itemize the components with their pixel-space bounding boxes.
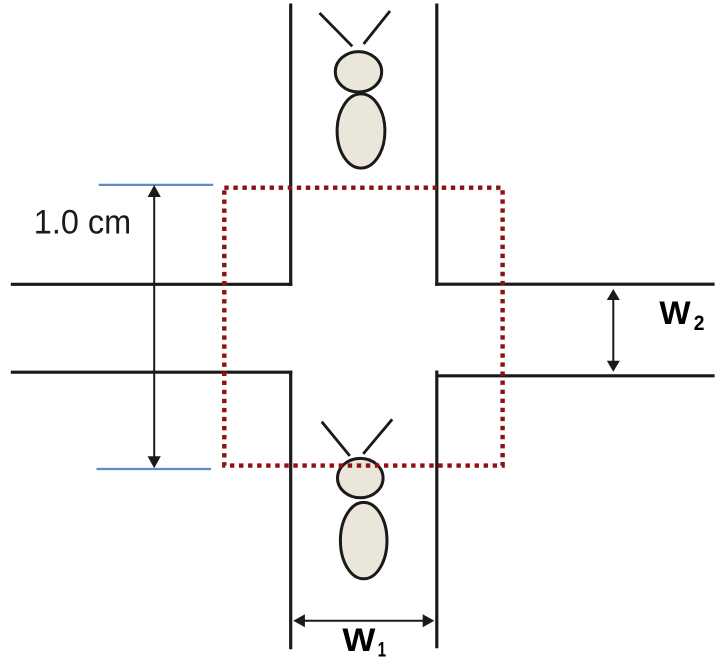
wall bottom-right horizontal: [437, 374, 715, 377]
wall top-left vertical: [289, 4, 292, 286]
label W2: [659, 295, 704, 335]
wall top-right horizontal: [435, 283, 714, 286]
svg-text:1.0 cm: 1.0 cm: [34, 203, 131, 241]
wall top-left horizontal: [11, 283, 293, 286]
ant bottom body: [340, 502, 387, 578]
ant bottom head: [338, 458, 384, 497]
dimension arrow 1.0 cm vertical: [148, 185, 161, 468]
blue extension tick bottom: [97, 468, 212, 470]
dimension arrow W2 vertical: [607, 289, 620, 372]
svg-text:2: 2: [694, 311, 705, 335]
wall top-right vertical: [435, 4, 438, 286]
wall bottom-right vertical: [435, 371, 438, 649]
ant top left antenna: [320, 13, 353, 46]
ant top body: [337, 94, 385, 168]
svg-text:W: W: [342, 622, 375, 658]
ant bottom right antenna: [363, 419, 392, 454]
red dotted ROI box: [224, 188, 502, 466]
blue extension tick top: [99, 184, 214, 186]
svg-text:1: 1: [378, 638, 387, 662]
wall bottom-left vertical: [289, 371, 292, 650]
label W1: [342, 622, 386, 662]
ant top: [320, 11, 391, 168]
wall bottom-left horizontal: [11, 371, 293, 374]
ant top head: [335, 52, 381, 92]
ant bottom left antenna: [322, 422, 350, 456]
ant bottom: [322, 419, 393, 579]
dimension arrow W1 horizontal: [293, 614, 434, 627]
ant top right antenna: [364, 11, 390, 44]
svg-text:W: W: [659, 295, 691, 331]
